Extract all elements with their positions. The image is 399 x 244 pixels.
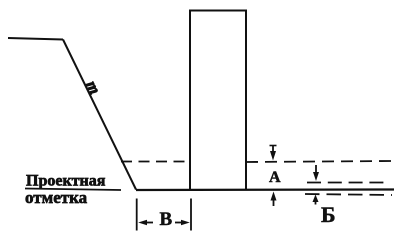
width dimension left arrow bbox=[138, 220, 153, 226]
dimension A down arrow bbox=[270, 145, 277, 161]
lower tolerance dashed line bbox=[305, 194, 392, 195]
column U-outline bbox=[190, 11, 246, 190]
dimension B(Б) up arrow bbox=[313, 195, 319, 205]
width dimension right arrow bbox=[175, 220, 190, 226]
upper tolerance dashed line bbox=[307, 182, 390, 184]
design elevation dashed line, right segment bbox=[246, 161, 391, 162]
svg-text:Проектная: Проектная bbox=[26, 173, 106, 190]
svg-text:m: m bbox=[82, 78, 103, 97]
svg-text:А: А bbox=[269, 169, 281, 186]
width dimension right tick bbox=[190, 199, 192, 231]
svg-text:В: В bbox=[160, 209, 173, 230]
slope line bbox=[63, 40, 136, 190]
svg-text:отметка: отметка bbox=[25, 188, 88, 207]
pit bottom solid line bbox=[136, 188, 394, 191]
dimension B(Б) down arrow bbox=[313, 165, 319, 181]
dimension A up arrow bbox=[271, 192, 277, 207]
design elevation dashed line, left segment bbox=[121, 161, 189, 163]
svg-text:Б: Б bbox=[321, 202, 336, 227]
underline of Проектная bbox=[25, 189, 121, 191]
width dimension left tick bbox=[136, 199, 138, 231]
ground surface line (top left) bbox=[8, 38, 63, 40]
